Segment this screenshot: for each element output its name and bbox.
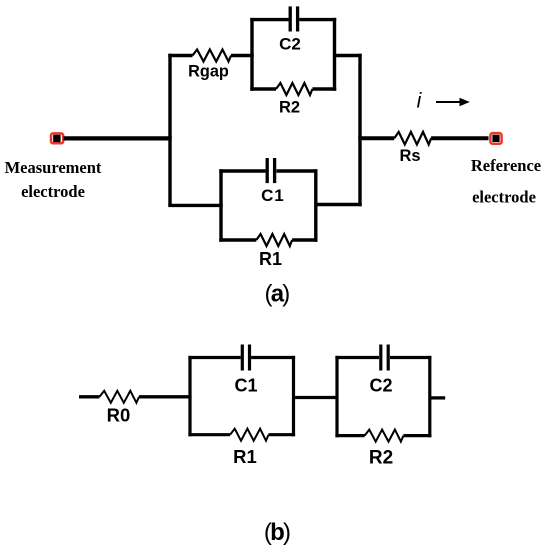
wire: C1 (b) box top edge right segment: [251, 356, 295, 359]
svg-text:R0: R0: [107, 405, 131, 426]
label: Reference electrode: [471, 156, 541, 206]
wire: C2/R2 box (b) left edge: [335, 356, 338, 437]
capacitor C2: [290, 6, 297, 31]
current direction arrow: [436, 98, 470, 107]
wire: R1 box bottom edge right segment: [292, 238, 317, 241]
svg-text:electrode: electrode: [472, 187, 536, 206]
wire: left junction to Rgap: [168, 54, 192, 57]
wire: C2/R2 box right edge: [333, 18, 336, 91]
wire: Rs to reference electrode: [431, 136, 488, 140]
resistor R1 (b): [230, 429, 268, 441]
measurement electrode terminal: [51, 133, 63, 143]
svg-text:C2: C2: [279, 35, 301, 54]
wire: C2 (b) box top edge right segment: [390, 356, 431, 359]
svg-text:C1: C1: [261, 186, 284, 205]
wire: C1 box top edge left segment: [219, 169, 265, 172]
wire: left vertical bus (junction): [168, 54, 171, 206]
svg-text:Measurement: Measurement: [5, 158, 102, 177]
wire: C2 box top edge left segment: [250, 18, 288, 21]
wire: C1/R1 box to C2/R2 box (b): [294, 396, 339, 399]
wire: right vertical bus (junction): [358, 54, 361, 206]
wire: Rgap to C2/R2 parallel box: [231, 54, 254, 57]
wire: C2 (b) box top edge left segment: [335, 356, 379, 359]
svg-text:Reference: Reference: [471, 156, 541, 175]
wire: C2/R2 box (b) right edge: [428, 356, 431, 437]
svg-text:R2: R2: [369, 448, 393, 469]
wire: R2 (b) box bottom edge left segment: [335, 434, 364, 437]
wire: C1/R1 box (b) right edge: [292, 356, 295, 436]
resistor R1: [256, 234, 292, 246]
capacitor C1: [267, 158, 274, 183]
wire: C1/R1 box to right junction: [316, 203, 362, 206]
svg-text:Rgap: Rgap: [188, 63, 229, 81]
wire: R1 box bottom edge left segment: [219, 238, 256, 241]
wire: R1 (b) box bottom edge left segment: [188, 433, 230, 436]
wire: R2 (b) box bottom edge right segment: [403, 434, 431, 437]
wire: right junction to Rs: [358, 136, 394, 140]
wire: C1/R1 box (b) left edge: [188, 356, 191, 436]
wire: C1 box top edge right segment: [277, 169, 318, 172]
reference electrode terminal: [490, 133, 501, 144]
svg-text:R1: R1: [233, 446, 257, 467]
resistor R2 (b): [365, 430, 404, 442]
resistor R0: [100, 391, 140, 403]
resistor Rgap: [193, 50, 232, 62]
wire: C1/R1 box right edge: [314, 169, 317, 241]
wire: R0 to C1/R1 box: [139, 395, 192, 398]
wire: C2/R2 box to right junction: [335, 54, 362, 57]
svg-text:R1: R1: [259, 249, 282, 269]
wire: R1 (b) box bottom edge right segment: [269, 433, 296, 436]
svg-text:i: i: [417, 90, 423, 113]
label: Measurement electrode: [5, 158, 102, 201]
svg-text:C2: C2: [369, 376, 392, 396]
svg-text:(a): (a): [265, 281, 290, 308]
svg-text:R2: R2: [279, 99, 300, 117]
wire: left junction to C1/R1 box: [168, 204, 222, 207]
resistor Rs: [394, 132, 431, 145]
svg-text:(b): (b): [264, 519, 290, 546]
resistor R2: [276, 83, 312, 95]
wire: C1/R1 box left edge: [219, 169, 222, 241]
wire: R2 box bottom edge left segment: [250, 87, 276, 90]
wire: right stub of diagram b: [430, 396, 445, 399]
wire: measurement electrode to left junction node: [64, 136, 172, 140]
svg-text:electrode: electrode: [21, 182, 85, 201]
wire: C1 (b) box top edge left segment: [188, 356, 240, 359]
wire: C2/R2 box left edge: [250, 18, 253, 91]
svg-text:Rs: Rs: [399, 147, 420, 165]
wire: C2 box top edge right segment: [299, 18, 336, 21]
capacitor C1 (b): [242, 345, 249, 371]
wire: left stub of diagram b: [79, 395, 100, 398]
wire: R2 box bottom edge right segment: [312, 87, 336, 90]
svg-text:C1: C1: [234, 376, 257, 396]
capacitor C2 (b): [381, 345, 388, 371]
